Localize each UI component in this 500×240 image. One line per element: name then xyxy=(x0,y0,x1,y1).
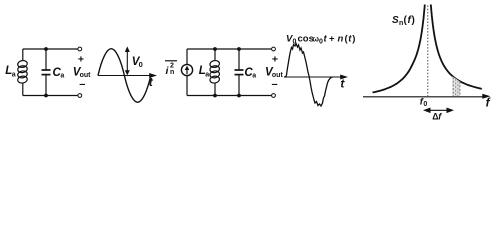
wire: tank2 inductor branch leads xyxy=(214,49,216,96)
svg-text:0: 0 xyxy=(139,60,143,69)
svg-text:t: t xyxy=(324,33,328,44)
svg-text:t: t xyxy=(340,77,345,91)
wire: tank1 bottom rail xyxy=(23,95,78,97)
wire: tank2 noise-source branch leads xyxy=(186,49,188,96)
label Sn(f) (spectrum vertical-axis) xyxy=(392,15,415,27)
svg-text:a: a xyxy=(252,73,256,80)
svg-text:a: a xyxy=(60,73,64,80)
svg-text:f: f xyxy=(438,112,442,122)
svg-text:): ) xyxy=(352,33,355,44)
inductor La (tank2) xyxy=(209,60,220,84)
label + (tank1 Vout polarity) xyxy=(78,53,84,65)
spectrum curve Sn(f) resonance peak xyxy=(373,5,482,93)
wire: tank2 bottom rail xyxy=(187,95,271,97)
svg-text:0: 0 xyxy=(319,38,323,45)
label Ca (tank2) xyxy=(244,67,256,80)
svg-text:): ) xyxy=(412,15,415,26)
wire: tank1 capacitor branch xyxy=(45,49,47,96)
label V0 (waveform1) xyxy=(132,56,143,69)
axis: waveform2 time axis with arrow xyxy=(284,75,348,80)
label La (tank2) xyxy=(199,65,210,78)
svg-text:–: – xyxy=(272,78,278,90)
label V0·cos(w0)t + n(t) (waveform2 formula) xyxy=(286,33,355,45)
svg-text:–: – xyxy=(79,78,85,90)
label t (waveform2) xyxy=(340,77,345,91)
label + (tank2 Vout polarity) xyxy=(272,54,278,66)
svg-text:i: i xyxy=(166,65,170,77)
node f0: dotted resonance marker line xyxy=(427,6,429,97)
svg-text:f: f xyxy=(486,96,491,110)
svg-text:2: 2 xyxy=(170,63,174,70)
waveform2: noisy sinusoid V0cosw0t+n(t) xyxy=(285,44,333,107)
dimension arrow V0 (waveform1 amplitude) xyxy=(125,46,130,75)
axis: waveform1 time axis with arrow xyxy=(98,73,157,78)
svg-text:+: + xyxy=(272,54,278,66)
label - (tank1 Vout polarity) xyxy=(79,78,85,90)
svg-text:a: a xyxy=(205,71,209,78)
capacitor Ca (tank1) xyxy=(42,70,51,75)
axis: spectrum frequency axis with arrow xyxy=(363,94,491,99)
svg-text:n: n xyxy=(170,69,174,76)
terminal: tank2 output bottom xyxy=(272,94,276,98)
current source i_n^2 (noise source) xyxy=(181,64,192,75)
wire: tank1 top rail xyxy=(23,48,78,50)
label f (spectrum axis) xyxy=(486,96,491,110)
svg-text:0: 0 xyxy=(423,101,427,108)
terminal: tank1 output bottom xyxy=(78,94,82,98)
junction: tank1 cap/bottom rail xyxy=(44,94,48,98)
dimension arrow delta-f (bandwidth) xyxy=(423,108,454,114)
capacitor Ca (tank2) xyxy=(235,70,244,75)
svg-text:n: n xyxy=(338,33,344,44)
svg-text:+: + xyxy=(78,53,84,65)
wire: tank2 capacitor branch xyxy=(238,49,240,96)
label - (tank2 Vout polarity) xyxy=(272,78,278,90)
label t (waveform1) xyxy=(149,75,154,89)
junction: tank2 cap/bottom rail xyxy=(237,94,241,98)
label i_n^2 (noise source value, overline) xyxy=(165,61,177,77)
terminal: tank2 output top xyxy=(272,47,276,51)
inductor La (tank1) xyxy=(17,60,28,84)
label La (tank1) xyxy=(5,65,16,78)
label Vout (tank1) xyxy=(73,66,91,79)
wire: tank2 top rail xyxy=(187,48,271,50)
label Vout (tank2) xyxy=(265,66,283,79)
junction: tank1 cap/top rail xyxy=(44,47,48,51)
junction: tank2 inductor/top rail xyxy=(213,47,217,51)
wire: tank1 left branch (inductor leads) xyxy=(22,49,24,96)
svg-text:S: S xyxy=(392,15,399,26)
svg-text:+: + xyxy=(329,33,335,44)
junction: tank2 cap/top rail xyxy=(237,47,241,51)
waveform1: clean sinusoid Vout xyxy=(98,49,151,103)
label delta-f (bandwidth) xyxy=(432,112,442,122)
label f0 (resonance frequency) xyxy=(420,96,428,108)
svg-text:a: a xyxy=(12,71,16,78)
terminal: tank1 output top xyxy=(78,47,82,51)
label Ca (tank1) xyxy=(53,67,65,80)
junction: tank2 inductor/bottom rail xyxy=(213,94,217,98)
shaded band df (noise bandwidth, hatched) xyxy=(452,76,460,96)
